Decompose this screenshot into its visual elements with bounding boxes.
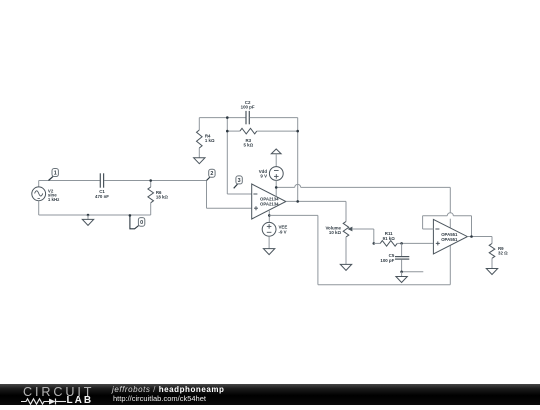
junction R11/C5	[400, 242, 403, 245]
svg-text:100 pF: 100 pF	[380, 258, 394, 263]
resistor R6	[148, 181, 169, 216]
wire node2 down to non-inverting input	[207, 181, 252, 209]
wire top input row right of C1	[104, 180, 207, 182]
ground below R4	[194, 158, 205, 164]
junction node 0 tap	[129, 214, 132, 217]
wire feedback left column down to inverting input	[227, 118, 251, 194]
capacitor C1	[95, 173, 109, 199]
junction wiper / R11	[373, 242, 376, 245]
svg-text:32 Ω: 32 Ω	[498, 250, 508, 255]
svg-text:3: 3	[238, 178, 241, 184]
junction R6 top	[149, 179, 152, 182]
wire feedback top row right of C2	[250, 118, 298, 202]
op-amp U2 OPA551	[433, 219, 467, 254]
voltage source VEE -9V	[262, 210, 287, 249]
capacitor C2	[241, 100, 255, 124]
svg-text:91 kΩ: 91 kΩ	[383, 236, 396, 241]
wire OPA551 output to R9	[467, 237, 492, 244]
wire stub right of C5	[402, 271, 424, 273]
svg-text:1 kΩ: 1 kΩ	[205, 138, 215, 143]
wire OPA2134 output to volume pot	[286, 201, 346, 221]
node 3 flag	[234, 176, 243, 188]
junction at ground tap	[87, 214, 90, 217]
resistor R11	[374, 231, 402, 246]
ground below R9	[486, 269, 497, 275]
junction output/feedback	[296, 200, 299, 203]
svg-text:OPA2134: OPA2134	[260, 202, 279, 207]
voltage source Vdd 9V	[259, 149, 283, 196]
ground below volume pot	[340, 264, 351, 270]
capacitor C5	[380, 243, 409, 271]
node 2 flag	[207, 169, 216, 180]
junction OPA551 output	[470, 235, 473, 238]
ground below VEE	[263, 249, 274, 255]
voltage source V2 (sine)	[32, 181, 60, 216]
node 1 flag	[49, 169, 59, 181]
ground (input return)	[82, 215, 93, 225]
wire Vdd rail to OPA551 supply	[276, 184, 450, 227]
svg-text:2: 2	[210, 171, 213, 177]
svg-text:OPA551: OPA551	[441, 237, 458, 242]
ground below C5	[396, 272, 407, 283]
junction VEE pin	[268, 214, 271, 217]
junction feedback right at R3	[296, 130, 299, 133]
resistor R4	[197, 118, 216, 158]
wire feedback top row left of C2	[199, 117, 246, 119]
svg-text:1 kHz: 1 kHz	[48, 197, 60, 202]
wire top input row left of C1	[39, 180, 100, 182]
junction C5 bottom	[400, 271, 403, 274]
op-amp U1 OPA2134	[252, 184, 286, 219]
wire VEE rail to OPA551 negative supply	[269, 215, 450, 284]
svg-text:18 kΩ: 18 kΩ	[156, 195, 169, 200]
junction feedback left at R3	[226, 130, 229, 133]
junction feedback left top	[226, 116, 229, 119]
svg-text:0: 0	[140, 220, 143, 226]
svg-text:10 kΩ: 10 kΩ	[329, 230, 342, 235]
node 0 flag	[130, 215, 145, 228]
svg-text:9 V: 9 V	[260, 174, 267, 179]
wire OPA551 feedback loop	[423, 213, 472, 237]
svg-text:1: 1	[54, 171, 57, 177]
resistor R9	[489, 244, 508, 269]
junction Vdd pin	[275, 186, 278, 189]
svg-text:100 pF: 100 pF	[241, 104, 255, 109]
svg-text:5 kΩ: 5 kΩ	[243, 143, 253, 148]
svg-text:-9 V: -9 V	[279, 229, 287, 234]
wire R11 to OPA551 non-inverting input	[402, 242, 434, 244]
wire bottom return row	[39, 214, 151, 216]
svg-text:470 nF: 470 nF	[95, 194, 109, 199]
potentiometer Volume 10k	[325, 222, 373, 265]
resistor R3	[227, 128, 297, 147]
